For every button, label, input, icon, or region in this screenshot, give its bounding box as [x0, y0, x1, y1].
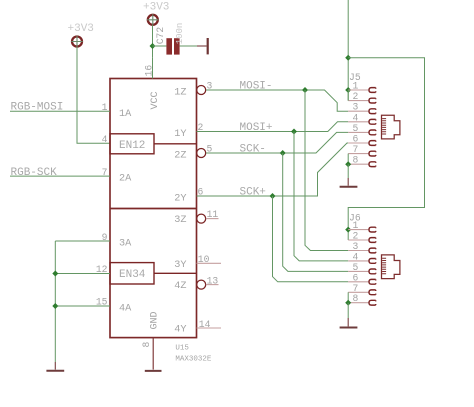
svg-text:3Z: 3Z: [174, 215, 186, 226]
svg-text:4: 4: [353, 112, 359, 123]
EN12 line to right edge: [154, 143, 197, 145]
net SCK- wire from pin 5 to J5 pin 5: [206, 132, 348, 153]
pin 10 stub (3Y): [197, 262, 222, 264]
wire +3V3 P2 to VCC pin 16: [152, 25, 154, 58]
svg-text:3: 3: [353, 241, 359, 252]
svg-text:8: 8: [353, 155, 359, 166]
junction top branch: [345, 55, 351, 61]
junction J6 pin 1: [345, 227, 351, 233]
svg-text:8: 8: [141, 342, 152, 348]
svg-text:3A: 3A: [119, 239, 132, 250]
net SCK+ wire from pin 6 to J5 pin 6: [197, 143, 349, 196]
J6 pin 1: [348, 220, 376, 232]
wire J6 pin 7 to pin 8: [347, 292, 349, 302]
svg-text:1: 1: [353, 220, 359, 231]
wire top vertical to J5 pin 1: [347, 0, 349, 101]
wire pin 15 to ground column: [55, 305, 110, 307]
svg-text:16: 16: [144, 65, 155, 77]
J5 pin 8: [348, 155, 376, 167]
J5 pin 7: [348, 144, 376, 156]
svg-text:5: 5: [353, 262, 359, 273]
wire J5 pin 1 to pin 2: [347, 90, 349, 101]
svg-text:11: 11: [207, 209, 219, 220]
J6 jack icon: [382, 255, 400, 279]
svg-text:2Z: 2Z: [174, 151, 186, 162]
svg-text:10: 10: [198, 254, 210, 265]
svg-text:MOSI-: MOSI-: [240, 80, 273, 92]
connector J5: [340, 72, 400, 187]
pin 8 GND stub: [152, 338, 154, 370]
svg-text:1: 1: [353, 81, 359, 92]
J5 pin 6: [348, 134, 376, 146]
J6 pin 8: [348, 293, 376, 305]
svg-text:100n: 100n: [175, 23, 185, 45]
junction MOSI- column: [302, 87, 308, 93]
svg-text:6: 6: [353, 272, 359, 283]
J6 pin 2: [348, 231, 376, 243]
svg-text:1A: 1A: [119, 109, 132, 120]
EN34 gate box: [110, 263, 154, 284]
capacitor C72: [166, 38, 179, 54]
svg-text:GND: GND: [150, 311, 161, 329]
ground J5: [347, 178, 349, 186]
junction SCK+ column: [270, 193, 276, 199]
wire SCK- column to J6 pin 5: [283, 153, 349, 271]
svg-text:6: 6: [353, 134, 359, 145]
wire ground column left: [54, 241, 56, 362]
svg-text:3Y: 3Y: [174, 260, 186, 271]
svg-text:1Z: 1Z: [174, 88, 186, 99]
net MOSI+ wire from pin 2 to J5 pin 4: [197, 122, 349, 132]
EN34 line to right edge: [154, 272, 197, 274]
ground at C72 (rotated): [197, 38, 208, 54]
junction VCC / C72: [150, 43, 156, 49]
wire C72 to ground: [180, 45, 197, 47]
wire J5 pin 8 to ground: [347, 164, 349, 178]
svg-text:C72: C72: [155, 27, 166, 45]
junction pin 12 column: [52, 271, 58, 277]
svg-text:EN12: EN12: [119, 140, 145, 152]
J6 pin 6: [348, 272, 376, 284]
svg-text:2Y: 2Y: [174, 194, 186, 205]
svg-text:EN34: EN34: [119, 269, 146, 281]
pin 5 bubble (2Z): [197, 149, 206, 158]
net MOSI- wire from pin 3 to J5 pin 3: [206, 90, 348, 111]
svg-text:+3V3: +3V3: [143, 2, 169, 14]
J6 pin 3: [348, 241, 376, 253]
net RGB-SCK wire: [10, 175, 110, 177]
wire MOSI- column to J6 pin 3: [305, 90, 348, 251]
svg-text:12: 12: [96, 264, 108, 275]
wire SCK+ column to J6 pin 6: [273, 196, 349, 282]
svg-text:4: 4: [102, 134, 108, 145]
svg-text:14: 14: [199, 319, 211, 330]
wire pin 9 to ground column: [55, 240, 110, 242]
J6 pin 7: [348, 283, 376, 295]
svg-text:U15: U15: [175, 344, 189, 352]
svg-text:2: 2: [353, 91, 359, 102]
svg-text:1: 1: [102, 102, 108, 113]
svg-text:MOSI+: MOSI+: [240, 122, 273, 134]
J5 pin 3: [348, 102, 376, 114]
pin 13 bubble (4Z): [197, 280, 206, 289]
svg-text:2: 2: [353, 231, 359, 242]
J6 pin 5: [348, 262, 376, 274]
connector J6: [340, 213, 400, 328]
wire +3V3 P1 to IC pin 4: [77, 47, 110, 143]
J5 pin 5: [348, 123, 376, 135]
svg-text:7: 7: [353, 283, 359, 294]
junction J5 pin 1: [345, 87, 351, 93]
J6 pin 4: [348, 251, 376, 263]
junction J5 pin 8: [345, 161, 351, 167]
IC internal divider: [110, 208, 197, 210]
wire J6 pin 8 to ground: [347, 303, 349, 318]
svg-text:15: 15: [96, 297, 108, 308]
J5 pin 4: [348, 112, 376, 124]
J5 pin 1: [348, 81, 376, 93]
EN12 gate box: [110, 134, 154, 154]
supply +3V3 P1 (left): [71, 36, 82, 47]
junction J6 pin 8: [345, 300, 351, 306]
pin 16 VCC stub: [152, 58, 154, 79]
svg-text:13: 13: [207, 275, 219, 286]
svg-text:MAX3032E: MAX3032E: [175, 355, 212, 363]
svg-text:+3V3: +3V3: [68, 23, 94, 35]
pin 11 bubble (3Z): [197, 214, 206, 223]
junction pin 15 column: [52, 303, 58, 309]
svg-text:7: 7: [102, 167, 108, 178]
svg-text:RGB-MOSI: RGB-MOSI: [11, 102, 64, 114]
wire J5 pin 7 to pin 8: [347, 154, 349, 165]
wire junction to C72: [153, 45, 167, 47]
wire pin 12 to ground column: [55, 273, 110, 275]
net RGB-MOSI wire: [10, 110, 110, 112]
junction SCK- column: [280, 150, 286, 156]
svg-text:3: 3: [353, 102, 359, 113]
svg-text:1Y: 1Y: [174, 129, 186, 140]
IC U15 MAX3032E outline: [110, 79, 197, 338]
svg-text:4Y: 4Y: [174, 325, 186, 336]
svg-text:VCC: VCC: [150, 91, 161, 109]
svg-text:5: 5: [353, 123, 359, 134]
supply +3V3 P2 (top): [147, 14, 158, 25]
svg-text:SCK+: SCK+: [240, 186, 266, 198]
svg-text:RGB-SCK: RGB-SCK: [11, 167, 58, 179]
pin 3 bubble (1Z): [197, 86, 206, 95]
J5 pin 2: [348, 91, 376, 103]
J5 jack icon: [382, 115, 400, 139]
wire MOSI+ column to J6 pin 4: [294, 132, 348, 261]
pin 14 stub (4Y): [197, 327, 222, 329]
svg-text:8: 8: [353, 293, 359, 304]
svg-text:9: 9: [102, 232, 108, 243]
ground under IC pin 8: [145, 370, 162, 372]
junction MOSI+ column: [291, 129, 297, 135]
svg-text:4Z: 4Z: [174, 281, 186, 292]
pin 11 stub: [206, 218, 219, 220]
svg-text:4A: 4A: [119, 303, 132, 314]
ground J6: [347, 318, 349, 326]
svg-text:SCK-: SCK-: [240, 143, 266, 155]
svg-text:7: 7: [353, 144, 359, 155]
wire top loop to J6: [348, 58, 424, 240]
svg-text:2A: 2A: [119, 174, 132, 185]
ground left column: [46, 362, 64, 371]
pin 13 stub: [206, 284, 219, 286]
svg-text:4: 4: [353, 251, 359, 262]
